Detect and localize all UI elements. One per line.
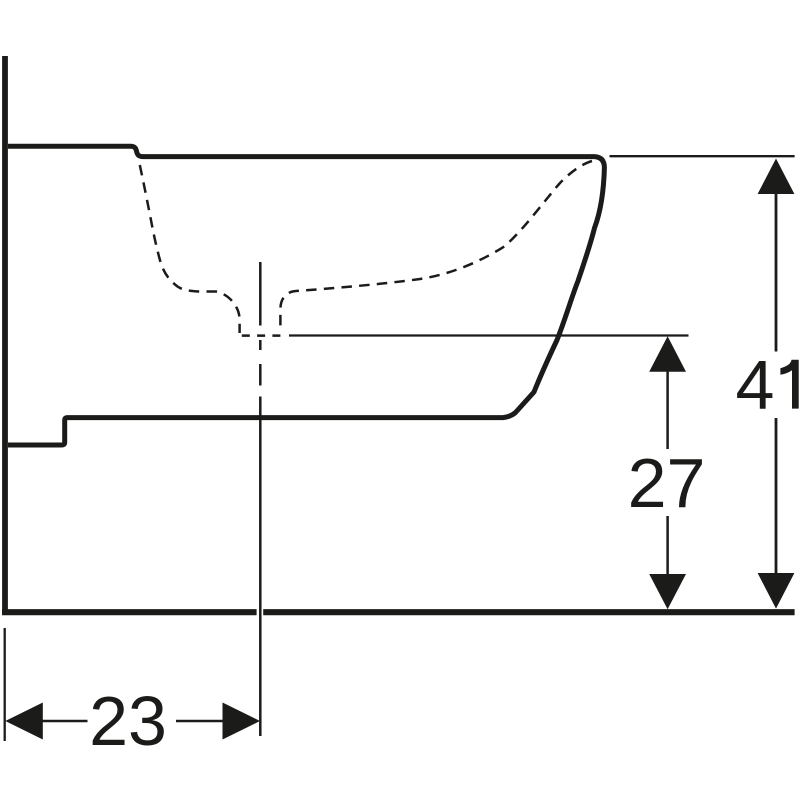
centerline dash 3 [259, 364, 262, 386]
dim 27 vertical line lower [666, 516, 669, 575]
floor line left segment [2, 609, 257, 615]
dim 23 horizontal line left [42, 720, 88, 723]
dim 41 label digit 1 (custom glyph) [780, 360, 798, 409]
dim 27 vertical line upper [666, 370, 669, 449]
dim 23 horizontal line right [176, 720, 223, 723]
floor line right segment [263, 609, 794, 615]
dim 41 extension line [610, 155, 795, 157]
dim 23 arrow right [223, 703, 261, 740]
dim 27 extension line [289, 334, 689, 336]
centerline segment 1 (solid) [259, 262, 262, 326]
dim 41 arrow up [758, 159, 795, 195]
dim 41 vertical line upper [775, 192, 778, 352]
dim 23 arrow left [5, 703, 43, 740]
centerline segment 4 (long solid) [259, 397, 262, 737]
dim 27 arrow down [649, 574, 686, 609]
svg-text:4: 4 [736, 346, 775, 424]
inner bowl dashed profile [139, 162, 240, 334]
inner bowl right dashed profile [280, 161, 592, 332]
bidet outer outline [8, 146, 604, 445]
centerline dash 2 [259, 340, 262, 350]
dim 27 arrow up [649, 336, 686, 372]
wall line [2, 56, 8, 612]
svg-text:27: 27 [628, 444, 706, 522]
svg-text:23: 23 [89, 682, 167, 760]
dim 41 vertical line lower [775, 418, 778, 574]
dim 23 extension line [4, 628, 6, 741]
dim 41 arrow down [758, 573, 795, 609]
inner bowl drain bottom dashed [242, 334, 281, 337]
